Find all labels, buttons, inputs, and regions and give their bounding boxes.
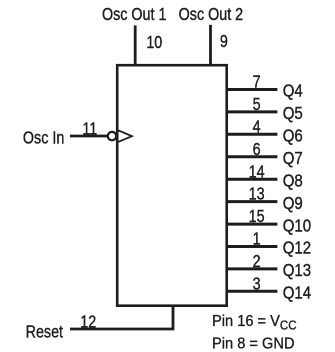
- pin 4 wire Q6: [227, 133, 278, 136]
- svg-text:Q7: Q7: [283, 149, 303, 168]
- Reset wire (pin 12): [70, 305, 173, 329]
- svg-text:Osc In: Osc In: [23, 128, 64, 148]
- svg-text:9: 9: [220, 31, 228, 51]
- svg-text:Q14: Q14: [283, 283, 311, 302]
- svg-text:Osc Out 1: Osc Out 1: [102, 4, 167, 24]
- svg-text:6: 6: [253, 140, 261, 160]
- svg-text:Pin 16 = VCC: Pin 16 = VCC: [212, 312, 297, 332]
- pin 9 wire (Osc Out 2): [209, 25, 212, 65]
- pin 6 wire Q7: [227, 155, 278, 158]
- svg-text:5: 5: [253, 95, 261, 115]
- svg-text:1: 1: [253, 229, 261, 249]
- svg-text:Q5: Q5: [283, 104, 303, 123]
- svg-text:Reset: Reset: [26, 322, 64, 342]
- pin 14 wire Q8: [227, 178, 278, 181]
- svg-text:Q12: Q12: [283, 239, 311, 258]
- inverter bubble on Osc In: [108, 132, 116, 140]
- pin 3 wire Q14: [227, 290, 278, 293]
- buffer triangle on Osc In: [118, 130, 132, 142]
- svg-text:Q13: Q13: [283, 261, 311, 280]
- svg-text:13: 13: [249, 184, 265, 204]
- svg-text:10: 10: [146, 32, 162, 52]
- pin 10 wire (Osc Out 1): [134, 25, 137, 65]
- svg-text:7: 7: [253, 72, 261, 92]
- svg-text:Pin 8 = GND: Pin 8 = GND: [212, 335, 295, 352]
- svg-text:Q9: Q9: [283, 194, 303, 213]
- pin 13 wire Q9: [227, 200, 278, 203]
- pin 7 wire Q4: [227, 88, 278, 91]
- svg-text:3: 3: [253, 274, 261, 294]
- Osc In wire (pin 11): [70, 135, 108, 138]
- pin 2 wire Q13: [227, 267, 278, 270]
- svg-text:Q6: Q6: [283, 126, 303, 145]
- svg-text:12: 12: [80, 312, 96, 332]
- svg-text:Osc Out 2: Osc Out 2: [179, 5, 244, 25]
- svg-text:2: 2: [253, 252, 261, 272]
- svg-text:14: 14: [249, 162, 265, 182]
- svg-text:Q4: Q4: [283, 82, 303, 101]
- IC body U1: [117, 65, 227, 306]
- svg-text:15: 15: [249, 207, 265, 227]
- svg-text:Q10: Q10: [283, 216, 311, 235]
- pin 5 wire Q5: [227, 110, 278, 113]
- svg-text:4: 4: [253, 117, 261, 137]
- svg-text:Q8: Q8: [283, 171, 303, 190]
- pin 15 wire Q10: [227, 223, 278, 226]
- svg-text:11: 11: [82, 119, 97, 139]
- pin 1 wire Q12: [227, 245, 278, 248]
